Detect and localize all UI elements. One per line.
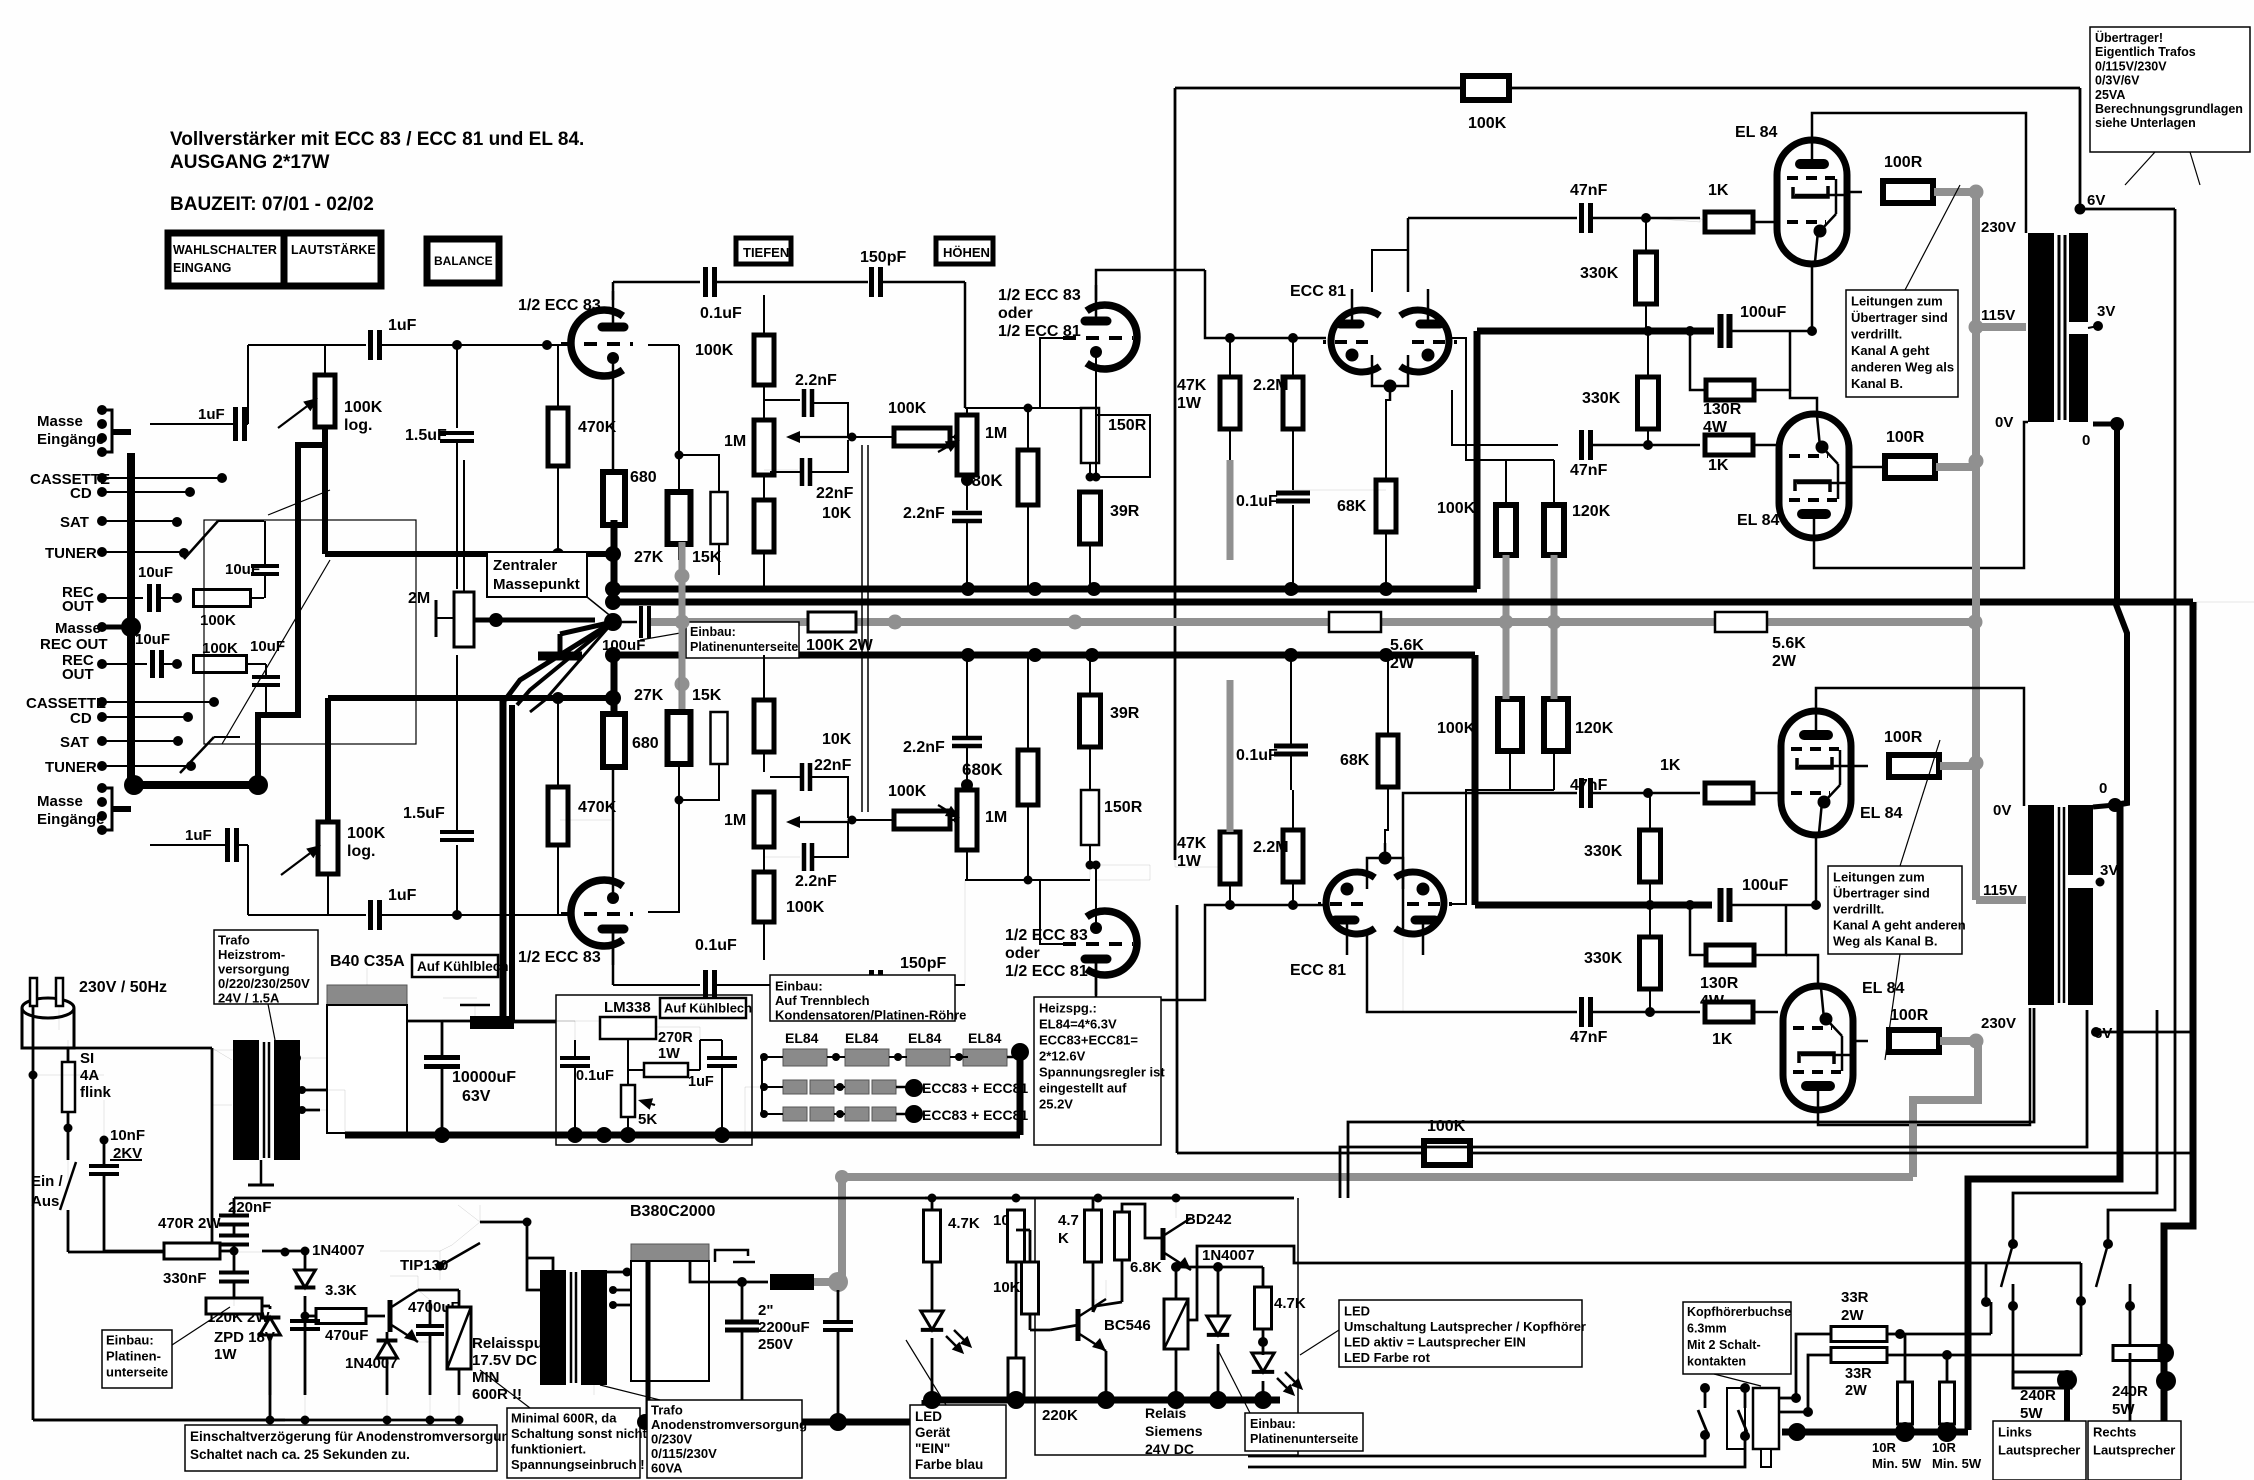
svg-text:100K: 100K [202,640,238,657]
svg-text:CASSETTE: CASSETTE [26,695,106,712]
svg-text:4.7: 4.7 [1058,1212,1079,1229]
svg-text:100K: 100K [1437,720,1476,737]
gray vertical right main [1972,192,1980,900]
thick wire trafo1-0 down to bus [2114,424,2120,603]
resistor 2.2M upper [1283,377,1303,429]
svg-text:HÖHEN: HÖHEN [943,245,990,260]
wire to heater trafo [105,1048,212,1105]
gray vertical through massepunkt area [679,542,686,713]
svg-text:10K: 10K [993,1279,1021,1296]
svg-text:100K: 100K [1468,115,1507,132]
thick jack ground bus [1782,1429,1968,1436]
svg-text:1M: 1M [724,433,746,450]
selector diagonal links [222,560,330,744]
pointer line leitungen lower [1900,740,1940,866]
resistor 5.6K 2W left [1329,612,1381,632]
svg-text:2W: 2W [1772,653,1797,670]
svg-text:15K: 15K [692,687,722,704]
svg-text:1M: 1M [985,809,1007,826]
thick volume2 top from y698 [325,698,331,822]
svg-text:6.8K: 6.8K [1130,1259,1162,1276]
resistor 15K upper [711,492,728,544]
svg-text:WAHLSCHALTER: WAHLSCHALTER [173,243,277,257]
wire V2b cathode to 150R lower [1095,865,1097,925]
terminal 0 transformer1 [2110,417,2124,431]
svg-text:220K: 220K [1042,1407,1078,1424]
svg-text:TIEFEN: TIEFEN [743,245,789,260]
wire b380 output [690,1261,768,1282]
svg-text:100K: 100K [888,783,927,800]
wire bc546 emitter [1105,1351,1108,1400]
relay supply rail [925,1197,1294,1200]
thick input trunk lower [258,445,325,785]
svg-text:BC546: BC546 [1104,1317,1151,1334]
svg-text:ECC83 + ECC81: ECC83 + ECC81 [922,1080,1028,1096]
heater transformer [233,1040,259,1160]
svg-text:680: 680 [630,469,657,486]
svg-text:2.2nF: 2.2nF [903,505,945,522]
svg-text:10K: 10K [822,505,852,522]
wire EL84#4 anode to trafo2 bottom [1818,1008,2030,1125]
gray wire 100K down [1503,555,1510,622]
svg-text:100K: 100K [200,612,236,629]
svg-text:100uF: 100uF [1740,304,1786,321]
svg-text:2M: 2M [408,590,430,607]
wire input lower [247,845,249,915]
box TIEFEN [736,238,791,264]
svg-text:Auf Kühlblech: Auf Kühlblech [664,1000,752,1015]
svg-text:0.1uF: 0.1uF [1236,747,1278,764]
svg-text:2.2nF: 2.2nF [795,372,837,389]
led blue [921,1311,943,1330]
svg-text:Ein /: Ein / [31,1173,64,1190]
junction ground-to-bus lower [124,775,144,795]
pointer lines uebertrager [2125,152,2155,185]
potentiometer 1M treble upper [957,415,977,475]
box Einbau Platinenunterseite right [1245,1413,1363,1451]
resistor 15K lower [711,712,728,764]
resistor 100K rec-out upper [194,590,251,607]
gray wire to trafo 115V upper [1976,323,2026,331]
wire grid-top node to tone [675,281,677,283]
svg-text:100R: 100R [1884,154,1923,171]
junction dots on buses [1284,582,1298,596]
svg-text:330K: 330K [1580,265,1619,282]
svg-text:100K: 100K [1437,500,1476,517]
resistor 39R upper [1080,492,1101,544]
svg-text:100R: 100R [1884,729,1923,746]
wire 6V to right thin vertical [2080,208,2175,211]
svg-text:EL 84: EL 84 [1735,124,1778,141]
svg-text:120K: 120K [1572,503,1611,520]
bus thick black 1 [613,586,1477,593]
svg-text:1M: 1M [985,425,1007,442]
svg-text:68K: 68K [1337,498,1367,515]
led red [1258,1337,1268,1347]
svg-text:BD242: BD242 [1185,1211,1232,1228]
wire to tube1 grid [542,340,552,350]
wire volume top to coupling cap [248,344,366,346]
wire thick channelB vertical [1472,655,1479,905]
resistor 680 lower [603,714,625,767]
wire rechts thin feed [2129,1353,2132,1421]
relay coil [447,1307,471,1369]
svg-text:470K: 470K [578,419,617,436]
bus thick black 3 [613,652,1475,659]
svg-text:1/2 ECC 83: 1/2 ECC 83 [518,949,601,966]
gray heater dc bus [842,1177,1913,1282]
svg-text:1K: 1K [1708,457,1729,474]
box Leitungen lower [1828,866,1962,954]
svg-text:Eingänge: Eingänge [37,431,105,448]
svg-text:100R: 100R [1886,429,1925,446]
resistor 330K upper a [1636,252,1657,304]
wire ecc81 anodes up [1372,250,1408,292]
svg-text:BAUZEIT: 07/01 - 02/02: BAUZEIT: 07/01 - 02/02 [170,194,374,215]
svg-text:330K: 330K [1584,843,1623,860]
svg-text:EL 84: EL 84 [1860,805,1903,822]
thick links feed [2064,1380,2070,1421]
box Rechts Lautsprecher [2088,1421,2181,1480]
svg-text:1uF: 1uF [688,1074,714,1090]
wire 33Rb to right switch v [2080,1301,2083,1355]
wire lower channel coupling [612,933,615,985]
wire mains to trafo [67,1048,69,1062]
svg-text:Eingänge: Eingänge [37,811,105,828]
anode trafo secondary dots [609,1286,617,1294]
resistor 47K 1W lower [1220,832,1240,884]
svg-text:330K: 330K [1582,390,1621,407]
box LED Umschaltung [1339,1300,1582,1367]
svg-text:0.1uF: 0.1uF [1236,493,1278,510]
resistor 330K lower a [1640,830,1661,882]
wire volume lower to cap [248,914,366,916]
svg-text:3V: 3V [2097,303,2115,320]
wires jack contacts left [1248,1435,1705,1456]
box LED Geraet EIN [910,1405,1006,1478]
svg-text:1uF: 1uF [185,827,212,844]
box Minimal 600R [507,1408,640,1478]
svg-text:1W: 1W [658,1046,680,1062]
thick vertical right edge [2196,602,2198,610]
wire 27K bottom lower [648,800,679,912]
resistor 470K lower [548,787,568,845]
resistor 330K lower b [1640,937,1661,989]
svg-text:OUT: OUT [62,598,94,615]
wire input to volume upper [247,345,249,424]
resistor 33R 2W b [1831,1348,1887,1363]
thick lower channel y698 [328,695,613,701]
svg-text:1N4007: 1N4007 [1202,1247,1255,1264]
wire 2M to massepunkt [474,618,595,623]
psu ground dots [567,1127,583,1143]
box HOEHEN [936,238,993,264]
svg-text:100K: 100K [786,899,825,916]
junction 47K 2.2M tops [1205,270,1326,338]
thick wire cathode bias lower [1475,902,1712,909]
thick speaker hot right [2164,602,2193,1421]
output transformer 2 [2028,805,2054,1005]
jack switch contacts [1700,1383,1710,1393]
bus thick black 2 [613,599,2115,606]
svg-text:47nF: 47nF [1570,1029,1608,1046]
heater trafo secondary wires [293,1054,301,1062]
svg-text:Auf Kühlblech: Auf Kühlblech [417,959,509,974]
svg-text:100K: 100K [344,399,383,416]
wire jack tip to 33Ra [1779,1397,1794,1400]
small cap b380 snubber [715,1250,748,1262]
box Einschaltverzoegerung [185,1425,497,1471]
gray wire to trafo2 115V [1976,896,2026,904]
box Uebertrager info [2090,27,2250,152]
svg-text:OUT: OUT [62,666,94,683]
svg-text:330K: 330K [1584,950,1623,967]
selector frame [204,520,416,744]
svg-text:0.1uF: 0.1uF [695,937,737,954]
wire feedback to 6V tap [2079,88,2082,209]
svg-text:10000uF: 10000uF [452,1069,516,1086]
box Leitungen upper [1846,290,1958,397]
svg-text:CD: CD [70,485,92,502]
wire cathode tap lower [560,819,611,821]
junction cap15uF top [452,340,462,350]
svg-text:47K: 47K [1177,377,1207,394]
svg-text:100uF: 100uF [602,637,645,654]
wire cathode 680 lower [612,766,615,894]
svg-text:4.7K: 4.7K [948,1215,980,1232]
svg-text:100K: 100K [695,342,734,359]
svg-text:Vollverstärker mit ECC 83 / EC: Vollverstärker mit ECC 83 / ECC 81 und E… [170,129,584,150]
svg-text:0: 0 [2082,432,2090,449]
resistor 27K upper [668,492,691,544]
svg-text:10uF: 10uF [138,564,173,581]
svg-text:230V: 230V [1981,219,2016,236]
wire mains-delay rail [234,1197,1294,1200]
svg-text:39R: 39R [1110,705,1140,722]
box Links Lautsprecher [1993,1421,2086,1480]
resistor 330K upper b [1638,377,1659,429]
svg-text:ECC 81: ECC 81 [1290,283,1346,300]
wire anode up upper [612,282,615,300]
relay contact switch top [480,1221,530,1224]
gray wires plates lower [1503,622,1510,699]
resistor 10K tone lower [754,700,774,752]
svg-text:3V: 3V [2100,862,2118,879]
svg-text:2.2nF: 2.2nF [903,739,945,756]
resistor 100K 2W gray bus [808,612,856,632]
resistor 470K upper [548,408,568,466]
kopfhoerer box [1683,1302,1791,1374]
wire ecc81 common cathode [1386,399,1390,401]
svg-text:TUNER: TUNER [45,545,97,562]
box Auf Kuehlblech 2 [660,998,746,1018]
svg-text:TUNER: TUNER [45,759,97,776]
svg-text:5.6K: 5.6K [1390,637,1424,654]
svg-text:47nF: 47nF [1570,182,1608,199]
svg-text:1K: 1K [1712,1031,1733,1048]
wire bd242 emitter down [1171,1262,1181,1272]
svg-text:Aus: Aus [31,1193,59,1210]
heater right connect [1019,1056,1021,1058]
svg-text:LAUTSTÄRKE: LAUTSTÄRKE [291,242,376,257]
svg-text:230V / 50Hz: 230V / 50Hz [79,979,167,996]
wire mains branch down [33,1419,285,1422]
wire ground bus bottom join [112,806,131,812]
LM338 regulator box outline [556,995,752,1145]
fan wires massepunkt [505,622,613,700]
box Einbau Platinenunterseite left [102,1330,172,1388]
svg-text:2.2nF: 2.2nF [795,873,837,890]
svg-text:22nF: 22nF [814,757,852,774]
capacitor 2200uF second [837,1290,840,1320]
junction massepunkt [605,581,621,597]
svg-text:2.2M: 2.2M [1253,377,1289,394]
box Zentraler Massepunkt [487,552,587,597]
wire delay mid [301,1247,310,1256]
box Einbau Auf Trennblech [770,975,955,1021]
svg-text:27K: 27K [634,549,664,566]
svg-text:B380C2000: B380C2000 [630,1203,716,1220]
bus2 right extension [2115,599,2193,606]
svg-text:1uF: 1uF [388,887,417,904]
thick psu vertical right [1017,1052,1024,1135]
wire V2a anode to top [1096,270,1205,300]
heater string row2 ECC [783,1080,807,1094]
resistor 150R lower [1081,790,1099,845]
speaker switch right [2103,1239,2113,1249]
thick delay ground bus [33,1419,460,1422]
ganged pot link lines [861,445,863,812]
wire relay contact to trafo2 [527,1258,540,1290]
headphone jack [1727,1388,1745,1449]
resistor 47K 1W upper [1220,377,1240,429]
svg-text:22nF: 22nF [816,485,854,502]
svg-text:Masse: Masse [55,620,101,637]
svg-text:log.: log. [344,417,372,434]
heater string row3 ECC [783,1107,807,1121]
svg-text:SAT: SAT [60,734,89,751]
svg-text:0V: 0V [1993,802,2011,819]
svg-text:63V: 63V [462,1088,491,1105]
resistor 10R a [1898,1382,1913,1424]
svg-text:ECC83 + ECC81: ECC83 + ECC81 [922,1107,1028,1123]
resistor 10K tone upper [754,500,774,552]
box BALANCE [427,239,499,283]
thick speaker return from trafo2 [1968,805,2120,1430]
wire jack ring to 33Rb [1779,1411,1806,1414]
trafo heater box label [214,930,318,1004]
svg-text:5.6K: 5.6K [1772,635,1806,652]
wire hoehen bottom node lower [1024,876,1033,885]
wire V2b anode down [1095,962,1098,1000]
svg-text:1uF: 1uF [198,406,225,423]
svg-text:39R: 39R [1110,503,1140,520]
wire ecc81b anodes down [1402,932,1404,1012]
svg-text:230V: 230V [1981,1015,2016,1032]
wire switch to primary [68,1251,212,1254]
wire EL84#3 anode to trafo2 [1816,688,2024,806]
svg-text:2W: 2W [1390,655,1415,672]
svg-text:0.1uF: 0.1uF [576,1068,614,1084]
resistor 680 upper [603,472,625,525]
potentiometer 1M treble lower [957,790,977,850]
svg-text:100K 2W: 100K 2W [806,637,874,654]
selector switch lower [180,737,214,773]
svg-text:115V: 115V [1981,307,2015,324]
wire relay contact control [1188,1246,2081,1320]
svg-text:100K: 100K [347,825,386,842]
svg-text:270R: 270R [658,1030,693,1046]
terminal 0 transformer2 [2108,798,2122,812]
svg-text:EL84: EL84 [968,1030,1002,1046]
potentiometer 1M bass upper [754,420,774,475]
svg-text:120K: 120K [1575,720,1614,737]
resistor 68K lower [1378,735,1398,787]
svg-text:6V: 6V [2087,192,2105,209]
svg-text:1N4007: 1N4007 [312,1242,365,1259]
svg-text:EL84: EL84 [785,1030,819,1046]
wire EL84#4 cathode up [1786,955,1818,987]
svg-text:4.7K: 4.7K [1274,1295,1306,1312]
gray ball heater dc [814,1278,834,1286]
feedback wire 100K top [1463,76,1509,100]
gray balls on bus [675,615,690,630]
svg-text:1.5uF: 1.5uF [403,805,445,822]
svg-text:47nF: 47nF [1570,462,1608,479]
wire hoehen top node [1024,404,1033,413]
svg-text:68K: 68K [1340,752,1370,769]
svg-text:470R 2W: 470R 2W [158,1215,221,1232]
wire cathode to 680 [612,362,615,472]
output transformer 1 [2028,233,2054,422]
wire plate feeds [1452,338,1554,460]
svg-text:SAT: SAT [60,514,89,531]
resistor 2.2M lower [1283,830,1303,882]
potentiometer 1M bass lower [754,792,774,847]
wire rect to cap [366,968,368,985]
svg-text:10nF: 10nF [110,1127,145,1144]
svg-text:0: 0 [2099,780,2107,797]
wire V2b grid [1040,880,1068,944]
wire 27K top from tube [648,344,679,346]
box LAUTSTAERKE [284,233,381,286]
svg-text:1W: 1W [1177,853,1202,870]
wire V2b to 47K lower [1096,905,1326,1000]
thick volume1 bottom to y554 [322,427,328,554]
svg-text:150R: 150R [1104,799,1143,816]
feedback lower 100K [1424,1141,1470,1165]
svg-text:3.3K: 3.3K [325,1282,357,1299]
thin feeds from trafo2 to headphones [1348,1008,2034,1198]
wire input ground bus left [127,453,135,785]
selector switch upper [184,521,218,559]
thick psu bottom bus [345,1132,1020,1139]
svg-text:100uF: 100uF [1742,877,1788,894]
speaker switch left [2008,1239,2018,1249]
svg-text:2.2M: 2.2M [1253,839,1289,856]
svg-text:130R: 130R [1703,401,1742,418]
svg-text:150pF: 150pF [900,955,946,972]
resistor 150R upper [1081,408,1099,463]
resistor 240R 5W right [2113,1306,2130,1353]
potentiometer 100K log volume upper [315,375,335,427]
box Auf Kuehlblech 1 [412,955,498,977]
svg-text:log.: log. [347,843,375,860]
svg-text:1M: 1M [724,812,746,829]
potentiometer 100K log volume lower [318,822,338,874]
svg-text:LM338: LM338 [604,999,651,1016]
svg-text:AUSGANG 2*17W: AUSGANG 2*17W [170,152,329,173]
